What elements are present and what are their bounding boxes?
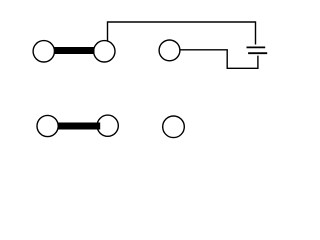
wire from terminal T3 to capacitor bottom bbox=[180, 50, 258, 69]
capacitor C1 bottom plate bbox=[248, 52, 267, 54]
terminal T6 (bottom row, right circle) bbox=[163, 116, 185, 138]
switch jumper bar S1 (top row, between T1 and T2) bbox=[54, 47, 95, 54]
terminal T3 (top row, right circle) bbox=[159, 40, 180, 61]
terminal T1 (top-left circle) bbox=[33, 41, 54, 62]
switch jumper bar S2 (bottom row, between T4 and T5) bbox=[58, 123, 100, 130]
capacitor C1 top plate bbox=[247, 46, 266, 48]
wire from switch S1 terminal up and across to capacitor top bbox=[108, 22, 256, 45]
terminal T4 (bottom-left circle) bbox=[37, 115, 58, 136]
terminal T2 (top row, second circle) bbox=[94, 41, 115, 62]
terminal T5 (bottom row, second circle) bbox=[97, 115, 118, 136]
